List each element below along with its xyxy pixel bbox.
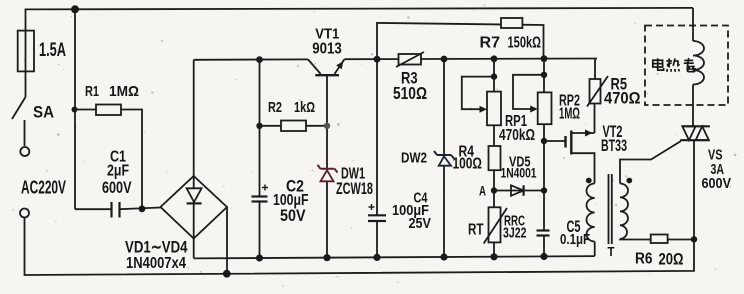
svg-text:9013: 9013 (312, 41, 342, 58)
svg-text:1N4001: 1N4001 (501, 165, 537, 181)
svg-text:T: T (608, 244, 615, 259)
svg-text:3J22: 3J22 (503, 226, 527, 242)
svg-text:600V: 600V (102, 179, 132, 197)
svg-text:1N4007x4: 1N4007x4 (126, 255, 186, 272)
svg-text:1MΩ: 1MΩ (109, 83, 139, 100)
svg-text:R6: R6 (635, 251, 653, 268)
svg-text:25V: 25V (409, 215, 432, 232)
svg-text:1kΩ: 1kΩ (294, 99, 315, 116)
svg-text:510Ω: 510Ω (393, 83, 427, 103)
svg-text:BT33: BT33 (601, 136, 627, 155)
svg-text:VD1∼VD4: VD1∼VD4 (125, 238, 188, 257)
svg-text:R7: R7 (480, 35, 501, 52)
svg-text:1.5A: 1.5A (39, 40, 66, 61)
svg-text:470kΩ: 470kΩ (499, 127, 535, 144)
svg-text:100Ω: 100Ω (453, 156, 483, 173)
svg-text:50V: 50V (280, 206, 306, 225)
svg-text:ZCW18: ZCW18 (336, 179, 373, 198)
svg-text:A: A (479, 184, 486, 199)
svg-text:1MΩ: 1MΩ (559, 106, 580, 123)
svg-text:150kΩ: 150kΩ (508, 35, 542, 52)
svg-text:SA: SA (33, 103, 54, 122)
svg-text:R1: R1 (85, 83, 99, 100)
svg-text:AC220V: AC220V (21, 178, 66, 198)
svg-text:20Ω: 20Ω (659, 251, 684, 269)
svg-text:RT: RT (468, 222, 484, 239)
svg-text:DW2: DW2 (401, 150, 427, 167)
svg-text:600V: 600V (702, 176, 732, 192)
svg-text:R2: R2 (268, 99, 282, 116)
svg-text:470Ω: 470Ω (604, 90, 641, 108)
svg-text:0.1μF: 0.1μF (560, 232, 590, 248)
svg-text:2μF: 2μF (107, 163, 129, 180)
